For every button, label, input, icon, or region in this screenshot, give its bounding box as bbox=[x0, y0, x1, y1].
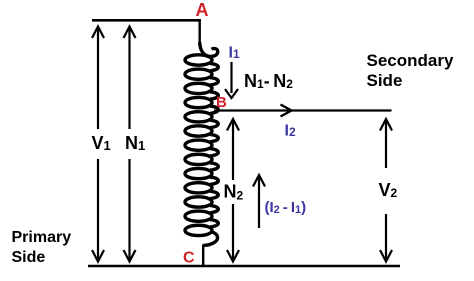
svg-text:Secondary: Secondary bbox=[367, 51, 454, 70]
svg-text:C: C bbox=[183, 250, 195, 267]
svg-text:Side: Side bbox=[367, 71, 403, 90]
svg-text:I2: I2 bbox=[285, 123, 296, 140]
svg-text:Primary: Primary bbox=[12, 229, 72, 246]
svg-text:B: B bbox=[216, 94, 227, 111]
svg-text:Side: Side bbox=[12, 249, 46, 266]
svg-text:A: A bbox=[196, 0, 209, 20]
svg-text:I1: I1 bbox=[229, 44, 240, 61]
svg-text:N1- N2: N1- N2 bbox=[244, 71, 293, 91]
